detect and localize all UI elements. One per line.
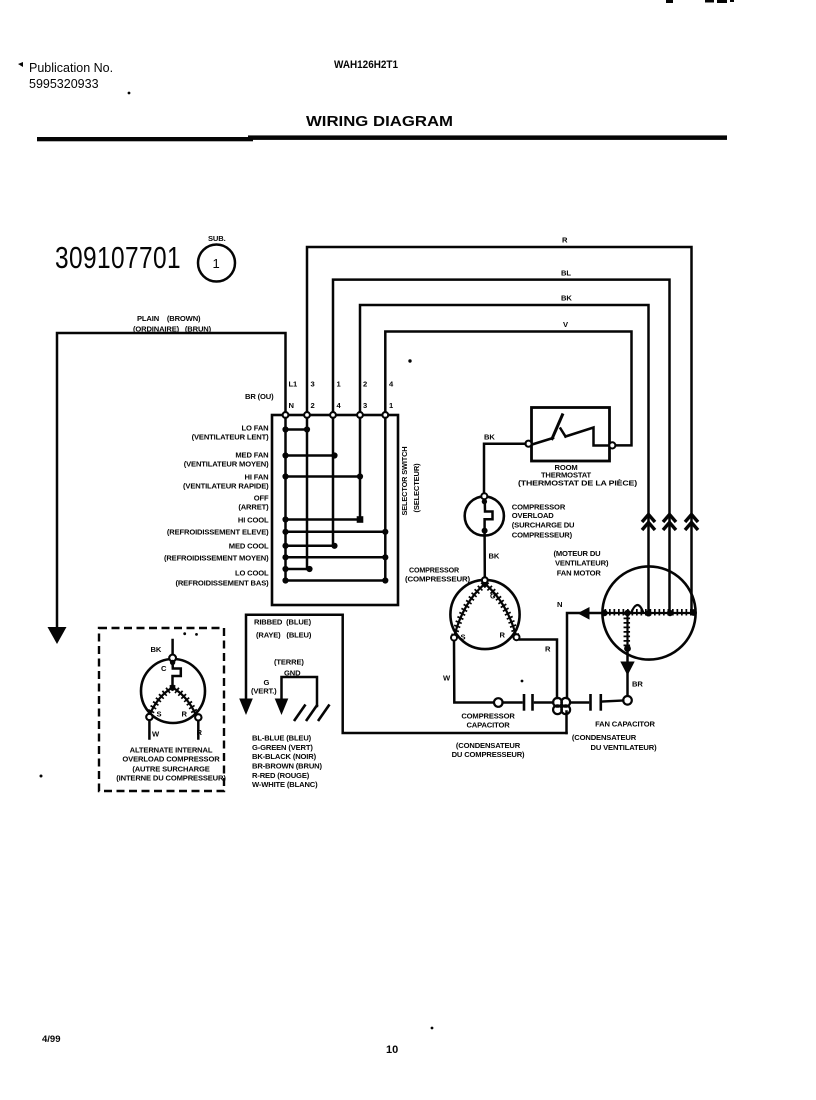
fan capacitor — [570, 694, 657, 752]
svg-text:N: N — [557, 600, 562, 609]
aux winding hatch — [624, 613, 631, 649]
svg-text:(SELECTEUR): (SELECTEUR) — [412, 463, 421, 513]
svg-text:(SURCHARGE DU: (SURCHARGE DU — [512, 521, 575, 530]
svg-text:(MOTEUR DU: (MOTEUR DU — [554, 549, 602, 558]
chevron arrows on R wire — [685, 515, 698, 523]
svg-text:W: W — [443, 674, 451, 683]
svg-text:(VENTILATEUR MOYEN): (VENTILATEUR MOYEN) — [184, 460, 269, 469]
svg-text:R: R — [545, 645, 551, 654]
svg-text:R: R — [500, 631, 506, 640]
wire compressor R to junction — [520, 640, 557, 699]
terminal BR — [623, 696, 632, 705]
aux winding backbone — [626, 613, 628, 649]
wire R — [307, 247, 692, 612]
alt run winding — [173, 688, 196, 715]
svg-text:(REFROIDISSEMENT ELEVE): (REFROIDISSEMENT ELEVE) — [167, 528, 269, 537]
svg-text:(REFROIDISSEMENT BAS): (REFROIDISSEMENT BAS) — [175, 579, 269, 588]
thermostat box — [532, 408, 610, 462]
row LO FAN — [286, 428, 308, 431]
node below C — [170, 660, 175, 665]
row HI COOL a — [286, 518, 361, 521]
room thermostat — [518, 408, 638, 488]
selector switch box — [272, 415, 398, 605]
rail from terminal 2 — [359, 418, 362, 520]
svg-text:SELECTOR SWITCH: SELECTOR SWITCH — [400, 447, 409, 516]
svg-text:DU VENTILATEUR): DU VENTILATEUR) — [591, 743, 658, 752]
svg-text:COMPRESSEUR): COMPRESSEUR) — [512, 531, 573, 540]
arrow BR direction — [620, 662, 634, 676]
header — [18, 0, 734, 141]
node BK wire — [645, 610, 651, 616]
svg-text:FAN MOTOR: FAN MOTOR — [557, 569, 602, 578]
selector switch wires to distribution — [307, 236, 698, 613]
svg-text:R: R — [182, 710, 188, 719]
footer — [42, 1027, 433, 1056]
compressor start winding (C to S) — [454, 585, 484, 637]
wire overload to compressor (BK) — [485, 534, 500, 578]
chassis ground symbol — [294, 705, 330, 722]
svg-text:Publication No.: Publication No. — [29, 61, 113, 75]
wire compressor S to capacitor (W) — [443, 641, 503, 707]
svg-text:(VENTILATEUR LENT): (VENTILATEUR LENT) — [192, 433, 270, 442]
ground wire — [251, 658, 330, 722]
svg-text:CAPACITOR: CAPACITOR — [466, 721, 510, 730]
svg-text:LO FAN: LO FAN — [242, 424, 269, 433]
svg-text:FAN CAPACITOR: FAN CAPACITOR — [595, 719, 655, 728]
svg-text:2: 2 — [311, 401, 315, 410]
svg-text:BK: BK — [151, 645, 162, 654]
svg-text:BK: BK — [561, 294, 572, 303]
arrow N direction — [578, 607, 590, 620]
svg-text:L1: L1 — [289, 380, 298, 389]
node aux tap — [624, 610, 630, 616]
svg-text:COMPRESSOR: COMPRESSOR — [409, 566, 460, 575]
overload top terminal — [481, 493, 487, 499]
alt compressor body circle — [141, 659, 205, 723]
capacitor plates — [589, 694, 592, 711]
svg-text:(INTERNE DU COMPRESSEUR): (INTERNE DU COMPRESSEUR) — [116, 774, 226, 783]
fan motor body circle — [602, 566, 695, 659]
row HI FAN — [286, 475, 361, 478]
svg-text:R: R — [197, 728, 203, 737]
plug ground pin arrow — [275, 699, 289, 716]
wire V — [385, 332, 631, 446]
svg-text:2: 2 — [363, 380, 367, 389]
svg-text:R: R — [562, 236, 568, 245]
svg-text:BR-BROWN (BRUN): BR-BROWN (BRUN) — [252, 761, 322, 770]
row MED FAN — [286, 454, 335, 457]
svg-text:S: S — [461, 633, 466, 642]
rail from terminal 4 — [384, 418, 387, 581]
thermostat contact arm — [532, 438, 553, 445]
svg-text:(ARRET): (ARRET) — [238, 503, 269, 512]
alt start winding — [150, 688, 173, 715]
node at overload top — [482, 499, 487, 504]
plug blade arrow L1 — [48, 627, 67, 644]
svg-text:RIBBED (BLUE): RIBBED (BLUE) — [254, 618, 312, 627]
compressor run winding (C to R) — [486, 585, 516, 637]
terminal 3/2 — [304, 412, 310, 418]
rail from terminal 3 — [306, 418, 309, 569]
wire BL — [333, 280, 670, 612]
main winding hatch — [605, 609, 696, 616]
stub R — [197, 721, 200, 739]
svg-text:DU COMPRESSEUR): DU COMPRESSEUR) — [452, 750, 525, 759]
stray scan dots — [183, 632, 186, 635]
thermostat left terminal — [525, 441, 531, 447]
compressor C terminal — [482, 577, 488, 583]
neutral return wire (ribbed blue) — [239, 615, 566, 733]
overload body circle — [465, 496, 504, 535]
node split — [170, 685, 176, 691]
svg-text:(TERRE): (TERRE) — [274, 658, 304, 667]
node winding left end — [601, 610, 607, 616]
svg-text:3: 3 — [311, 380, 315, 389]
alt R terminal — [195, 714, 201, 720]
alt S terminal — [146, 714, 152, 720]
stray scan dots — [408, 359, 523, 682]
svg-text:BK: BK — [489, 552, 500, 561]
wire L1 horizontal brown — [57, 333, 286, 629]
node at overload bottom — [482, 528, 488, 534]
row MED COOL a — [286, 545, 335, 548]
terminal 1/4 — [330, 412, 336, 418]
chevron arrows on BL wire — [663, 515, 676, 523]
svg-text:(COMPRESSEUR): (COMPRESSEUR) — [405, 575, 471, 584]
terminal on W wire — [494, 698, 503, 707]
selector switch — [164, 380, 421, 606]
svg-text:BR (OU): BR (OU) — [245, 392, 274, 401]
rail from terminal L1 — [284, 418, 287, 581]
compressor — [405, 566, 520, 649]
fan motor — [554, 549, 697, 660]
row LO COOL b — [286, 579, 386, 582]
overload heater zigzag — [485, 502, 493, 530]
thermostat right terminal — [609, 442, 615, 448]
node winding right end — [690, 609, 697, 616]
wire fan motor BR lead — [620, 649, 643, 705]
svg-text:BR: BR — [632, 680, 643, 689]
svg-text:SUB.: SUB. — [208, 234, 226, 243]
svg-text:BL: BL — [561, 269, 571, 278]
svg-text:BL-BLUE (BLEU): BL-BLUE (BLEU) — [252, 734, 312, 743]
svg-text:3: 3 — [363, 401, 367, 410]
svg-text:C: C — [490, 592, 496, 601]
plug blade arrow N — [239, 699, 253, 716]
wire BK — [360, 305, 649, 612]
thermostat step — [561, 429, 566, 437]
svg-text:HI COOL: HI COOL — [238, 516, 269, 525]
thermostat arm 2 — [566, 428, 610, 446]
wire color legend — [252, 734, 322, 790]
dashed enclosure box — [99, 628, 224, 791]
junction quick-connect cluster — [553, 698, 570, 714]
svg-text:OVERLOAD COMPRESSOR: OVERLOAD COMPRESSOR — [122, 754, 220, 763]
svg-text:WIRING DIAGRAM: WIRING DIAGRAM — [306, 114, 453, 130]
terminal L1/N — [283, 412, 289, 418]
svg-text:R-RED (ROUGE): R-RED (ROUGE) — [252, 771, 310, 780]
svg-text:WAH126H2T1: WAH126H2T1 — [334, 59, 398, 71]
svg-text:COMPRESSOR: COMPRESSOR — [461, 712, 515, 721]
svg-text:LO COOL: LO COOL — [235, 569, 269, 578]
thermostat bimetal spike — [552, 414, 564, 441]
svg-text:PLAIN (BROWN): PLAIN (BROWN) — [137, 314, 201, 323]
svg-text:5995320933: 5995320933 — [29, 77, 99, 91]
svg-text:COMPRESSOR: COMPRESSOR — [512, 502, 566, 511]
svg-text:(RAYE) (BLEU): (RAYE) (BLEU) — [256, 631, 312, 640]
svg-text:VENTILATEUR): VENTILATEUR) — [555, 559, 609, 568]
svg-text:1: 1 — [213, 256, 220, 271]
wire thermostat to overload (BK) — [484, 433, 525, 493]
svg-text:MED FAN: MED FAN — [235, 451, 268, 460]
svg-text:C: C — [161, 664, 167, 673]
svg-text:S: S — [157, 710, 162, 719]
svg-text:ALTERNATE INTERNAL: ALTERNATE INTERNAL — [130, 745, 213, 754]
alt C terminal — [169, 655, 176, 662]
capacitor plates — [523, 694, 526, 711]
svg-text:(THERMOSTAT DE LA PIÈCE): (THERMOSTAT DE LA PIÈCE) — [518, 479, 638, 488]
svg-text:BK-BLACK (NOIR): BK-BLACK (NOIR) — [252, 752, 317, 761]
svg-text:OVERLOAD: OVERLOAD — [512, 511, 554, 520]
lead stub — [171, 640, 174, 655]
part number 309107701 — [55, 234, 235, 282]
svg-text:N: N — [289, 401, 294, 410]
svg-text:W: W — [152, 730, 160, 739]
rail from terminal 1 — [332, 418, 335, 546]
overload zigzag — [173, 663, 181, 687]
svg-text:(CONDENSATEUR: (CONDENSATEUR — [456, 741, 521, 750]
power cord line side (brown plain wire) — [48, 314, 286, 644]
wire fan motor N lead — [557, 600, 605, 698]
svg-text:(VERT.): (VERT.) — [251, 687, 277, 696]
row MED COOL b — [286, 556, 386, 559]
node below C terminal — [482, 582, 487, 587]
svg-text:(AUTRE SURCHARGE: (AUTRE SURCHARGE — [132, 764, 209, 773]
svg-text:G-GREEN (VERT): G-GREEN (VERT) — [252, 743, 313, 752]
compressor overload — [465, 493, 575, 539]
row HI COOL b — [286, 531, 386, 534]
svg-text:(VENTILATEUR RAPIDE): (VENTILATEUR RAPIDE) — [183, 482, 269, 491]
svg-text:OFF: OFF — [254, 494, 269, 503]
svg-text:GND: GND — [284, 669, 301, 678]
terminal 2/3 — [357, 412, 363, 418]
svg-text:(CONDENSATEUR: (CONDENSATEUR — [572, 733, 637, 742]
compressor body circle — [450, 580, 519, 649]
svg-text:W-WHITE (BLANC): W-WHITE (BLANC) — [252, 780, 318, 789]
main winding backbone — [605, 612, 696, 614]
svg-text:HI FAN: HI FAN — [245, 473, 269, 482]
svg-text:(ORDINAIRE) (BRUN): (ORDINAIRE) (BRUN) — [133, 325, 212, 334]
svg-text:10: 10 — [386, 1044, 398, 1056]
compressor capacitor — [452, 694, 553, 759]
compressor R terminal — [514, 634, 520, 640]
svg-text:309107701: 309107701 — [55, 240, 181, 275]
compressor S terminal — [451, 635, 457, 641]
svg-text:4/99: 4/99 — [42, 1034, 61, 1045]
svg-text:MED COOL: MED COOL — [229, 542, 269, 551]
alternate internal overload compressor — [40, 628, 227, 791]
svg-text:BK: BK — [484, 433, 495, 442]
node BL wire — [667, 610, 673, 616]
terminal 4/1 — [382, 412, 388, 418]
svg-text:(REFROIDISSEMENT MOYEN): (REFROIDISSEMENT MOYEN) — [164, 554, 269, 563]
stub W — [148, 720, 151, 738]
chevron arrows on BK wire — [642, 515, 698, 531]
row LO COOL a — [286, 568, 310, 571]
winding bump — [631, 605, 644, 613]
node aux winding bottom — [624, 645, 631, 652]
